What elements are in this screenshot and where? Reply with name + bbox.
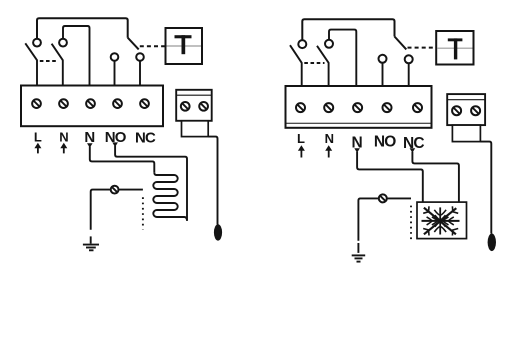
screw terminal 1 (L) xyxy=(296,103,305,112)
switch S2 contact xyxy=(59,39,67,47)
wire: N to heating element xyxy=(90,147,155,173)
sensor block screw 2 xyxy=(199,102,208,111)
dashed link to thermostat sensor T xyxy=(408,47,436,49)
arrow: mains N in xyxy=(325,145,332,157)
cooling unit box xyxy=(417,202,467,239)
wire: L contact to changeover common xyxy=(37,18,128,38)
svg-text:NO: NO xyxy=(374,134,396,151)
wire: NC to cooling unit xyxy=(412,152,459,202)
sensor bulb xyxy=(214,224,222,240)
wire: L contact to changeover common xyxy=(302,19,394,40)
contact NO xyxy=(111,53,119,61)
svg-text:NC: NC xyxy=(135,129,156,146)
thermostat box T xyxy=(436,31,473,65)
svg-text:N: N xyxy=(325,131,334,146)
contact NC xyxy=(405,55,413,63)
sensor block screw 2 xyxy=(471,106,480,115)
wire: N to cooling unit xyxy=(357,152,423,202)
mechanical link (dashed) xyxy=(304,62,324,64)
screw terminal 2 (N) xyxy=(59,99,68,108)
earth screw xyxy=(379,194,387,202)
wire: NC contact to terminal xyxy=(139,61,141,87)
switch S1 contact xyxy=(33,39,41,47)
screw terminal 4 (NO) xyxy=(113,99,122,108)
terminal block X1 xyxy=(21,86,163,127)
snowflake symbol xyxy=(422,206,460,235)
dashed link to thermostat sensor T xyxy=(140,45,165,47)
wire: NO contact to terminal xyxy=(114,61,116,87)
sensor bulb xyxy=(488,234,496,252)
switch S1 contact xyxy=(298,40,306,48)
screw terminal 3 (N) xyxy=(86,99,95,108)
earth wire with appliance screw xyxy=(91,190,143,230)
switch S1 blade xyxy=(25,43,37,86)
switch S2 contact xyxy=(325,40,333,48)
changeover blade xyxy=(128,38,139,50)
wire: NO contact to terminal xyxy=(382,63,384,87)
screw terminal 5 (NC) xyxy=(413,103,422,112)
mechanical link (dashed) xyxy=(40,60,58,62)
node: N feed to cooler xyxy=(354,148,360,153)
ground symbol xyxy=(352,243,366,262)
wire: NC contact to terminal xyxy=(408,63,410,87)
arrow: mains L in xyxy=(34,143,41,154)
sensor terminal block (2-pole) xyxy=(176,90,212,137)
screw terminal 3 (N) xyxy=(353,103,362,112)
screw terminal 4 (NO) xyxy=(383,103,392,112)
screw terminal 2 (N) xyxy=(324,103,333,112)
node: NO feed to heater xyxy=(112,142,118,147)
changeover blade xyxy=(395,37,407,50)
wire: S2 contact to terminal N xyxy=(63,26,90,87)
switch S2 blade xyxy=(52,44,63,87)
contact NC xyxy=(136,53,144,61)
dotted line to appliance xyxy=(410,206,412,241)
screw terminal 5 (NC) xyxy=(140,99,149,108)
thermostat box T xyxy=(166,28,203,64)
switch S2 blade xyxy=(317,46,329,87)
sensor block screw 1 xyxy=(452,106,461,115)
svg-text:L: L xyxy=(34,129,42,144)
node: N feed to heater xyxy=(87,143,93,148)
arrow: mains L in xyxy=(298,145,305,157)
wire: S2 contact to terminal N xyxy=(329,30,356,87)
wire: capillary tube xyxy=(208,137,217,225)
dotted line to appliance xyxy=(142,197,144,229)
terminal block X1 xyxy=(286,86,432,128)
node: NC feed to cooler xyxy=(410,148,416,153)
svg-text:L: L xyxy=(297,131,305,146)
screw terminal 1 (L) xyxy=(32,99,41,108)
svg-text:N: N xyxy=(59,129,68,144)
arrow: mains N in xyxy=(60,143,67,154)
contact NO xyxy=(379,55,387,63)
heating element xyxy=(153,172,187,221)
wire: capillary tube xyxy=(480,142,491,234)
wire: NO to heater return xyxy=(115,146,187,221)
ground symbol xyxy=(83,236,99,250)
earth screw xyxy=(111,186,119,194)
sensor terminal block (2-pole) xyxy=(447,94,485,142)
sensor block screw 1 xyxy=(181,102,190,111)
earth wire with appliance screw xyxy=(358,198,411,240)
switch S1 blade xyxy=(290,45,302,87)
